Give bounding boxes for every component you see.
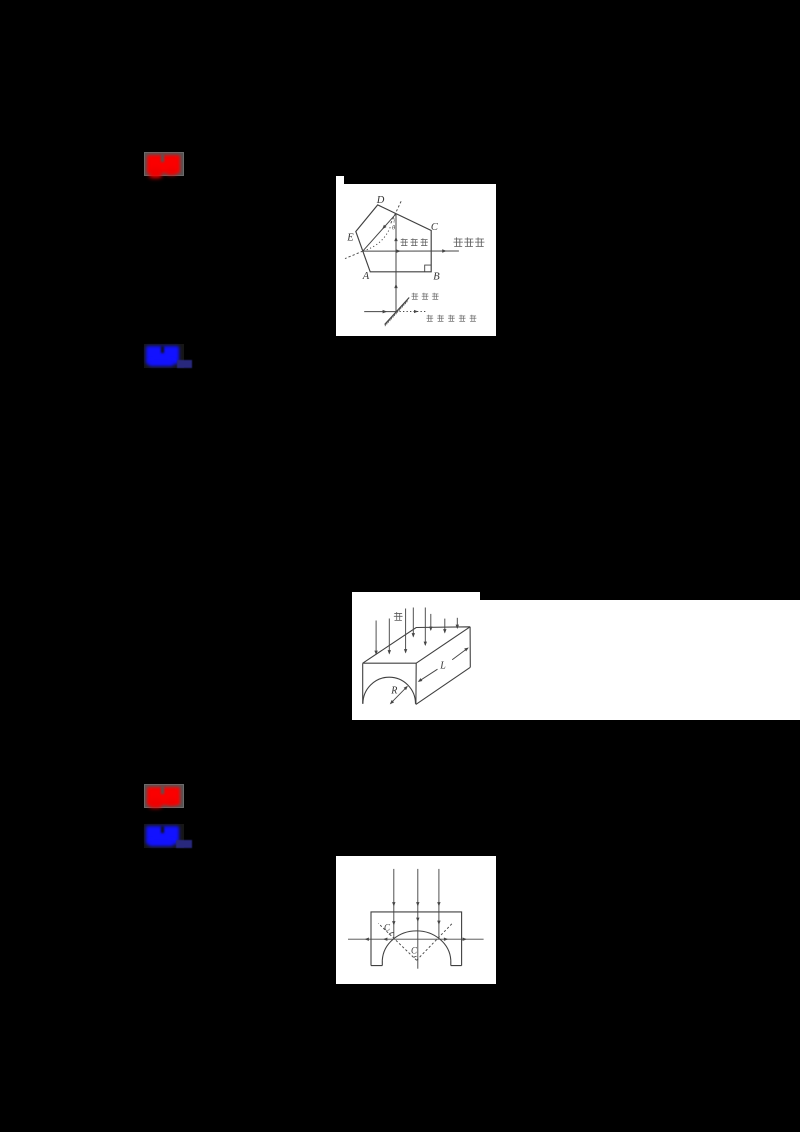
input ray to mirror xyxy=(364,310,396,312)
vertical ray from mirror up to top face xyxy=(395,213,397,311)
svg-text:C: C xyxy=(411,945,418,955)
block outline xyxy=(371,912,462,966)
R arrow heads xyxy=(388,700,394,706)
svg-text:C: C xyxy=(431,222,439,233)
平面镜 xyxy=(411,292,438,299)
dashed normal at P1 lower-left xyxy=(345,251,363,259)
光 xyxy=(394,611,403,619)
svg-text:i: i xyxy=(393,217,395,224)
svg-text:L: L xyxy=(439,660,446,671)
letters xyxy=(346,195,440,283)
R radius arrow xyxy=(390,686,406,703)
stubs xyxy=(382,960,451,966)
svg-text:E: E xyxy=(346,232,354,243)
mirror hatching xyxy=(385,299,407,326)
reflected ray P2 -> P1 xyxy=(363,213,396,250)
arch xyxy=(382,931,451,960)
red tag 2 xyxy=(144,784,184,808)
horizontal refracted line xyxy=(348,938,484,940)
svg-text:R: R xyxy=(390,685,397,696)
svg-text:C: C xyxy=(384,922,391,932)
svg-text:A: A xyxy=(361,271,369,282)
dotted transmitted ray after mirror xyxy=(396,310,427,312)
angle arcs xyxy=(389,932,394,934)
light rays xyxy=(376,607,468,703)
五棱镜 xyxy=(400,238,428,245)
svg-text:D: D xyxy=(376,195,385,206)
dotted curve to P1 xyxy=(363,227,390,251)
L arrow heads xyxy=(417,678,423,683)
svg-text:θ: θ xyxy=(392,224,396,231)
right angle mark at B xyxy=(424,265,431,272)
至人眼 xyxy=(453,237,484,246)
blue tag 1 (blurred 解析-style tag) xyxy=(144,344,184,368)
vertical rays xyxy=(392,869,394,939)
dashed normal at top face xyxy=(390,201,401,224)
box top face xyxy=(362,626,469,662)
front face sides xyxy=(362,663,416,704)
pentaprism body ABCDE xyxy=(356,204,431,271)
svg-text:B: B xyxy=(433,271,440,282)
small angle labels near entry point xyxy=(392,217,396,231)
L length arrow xyxy=(418,648,467,681)
mirror xyxy=(384,297,409,324)
right back edge + bottom right edge xyxy=(416,626,470,704)
front semicircular groove xyxy=(363,677,416,704)
dashed radii xyxy=(378,923,416,960)
至感光部件 xyxy=(426,314,476,321)
blue tag 2 xyxy=(144,824,184,848)
red tag 1 (blurred 答案-style tag) xyxy=(144,152,184,176)
exit ray to eye xyxy=(363,250,459,252)
arrowheads xyxy=(381,224,447,313)
